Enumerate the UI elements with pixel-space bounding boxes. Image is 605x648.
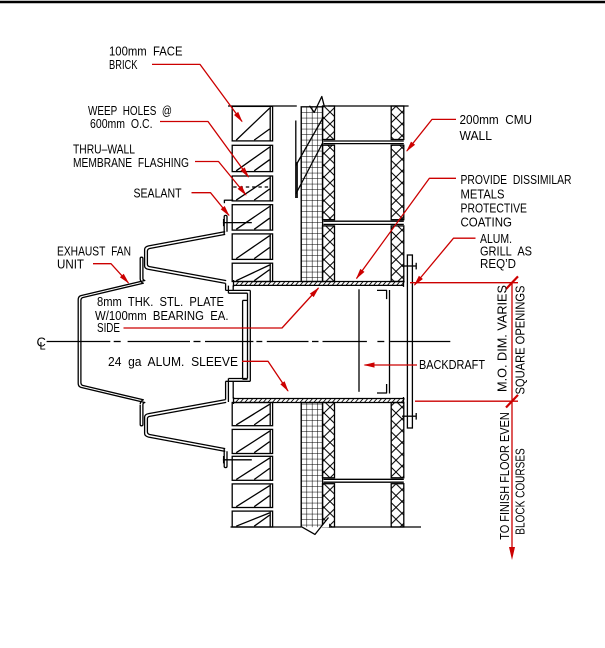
leader membrane flashing xyxy=(195,162,247,196)
damper corner bracket top xyxy=(377,290,387,299)
leader exhaust fan unit xyxy=(93,264,129,284)
svg-text:WALL: WALL xyxy=(460,129,493,143)
fastener top xyxy=(223,219,252,226)
thru-wall flashing riser and ties xyxy=(296,119,323,199)
svg-text:L: L xyxy=(40,341,46,353)
fastener bottom xyxy=(223,456,252,463)
leader sealant xyxy=(192,193,230,217)
svg-text:REQ’D: REQ’D xyxy=(480,257,516,271)
svg-text:BLOCK COURSES: BLOCK COURSES xyxy=(513,448,527,535)
svg-text:SEALANT: SEALANT xyxy=(134,187,182,201)
svg-text:SQUARE OPENINGS: SQUARE OPENINGS xyxy=(513,286,527,395)
backdraft damper blade xyxy=(358,289,360,392)
svg-text:SIDE: SIDE xyxy=(97,321,120,335)
leader weep holes xyxy=(160,122,249,178)
svg-text:M.O. DIM. VARIES: M.O. DIM. VARIES xyxy=(496,285,510,392)
svg-text:BACKDRAFT: BACKDRAFT xyxy=(419,358,485,372)
svg-text:EXHAUST FAN: EXHAUST FAN xyxy=(57,245,131,259)
leader 8mm steel plate xyxy=(124,287,320,328)
wall bottom edge line xyxy=(231,526,422,528)
centerline xyxy=(47,341,451,343)
svg-text:24 ga ALUM. SLEEVE: 24 ga ALUM. SLEEVE xyxy=(108,355,238,369)
grout column lower (grid hatch) xyxy=(301,403,322,528)
face brick column upper (100mm face brick, hatched) xyxy=(232,106,272,281)
svg-text:MEMBRANE FLASHING: MEMBRANE FLASHING xyxy=(73,156,189,170)
leader backdraft xyxy=(364,362,418,367)
svg-text:METALS: METALS xyxy=(461,187,505,201)
leader 24ga sleeve xyxy=(242,361,289,392)
cmu bed joint 2 xyxy=(324,221,404,224)
svg-text:PROVIDE DISSIMILAR: PROVIDE DISSIMILAR xyxy=(461,173,572,187)
svg-text:COATING: COATING xyxy=(461,215,513,229)
centerline symbol xyxy=(37,335,46,353)
alum grille plate with bolts xyxy=(402,255,416,428)
svg-text:200mm CMU: 200mm CMU xyxy=(460,113,533,127)
border top edge xyxy=(0,1,605,4)
cmu left face shell X-hatch xyxy=(323,106,335,527)
face brick column lower (100mm face brick, hatched) xyxy=(232,403,272,528)
opening left jamb xyxy=(232,285,234,398)
break symbol bottom xyxy=(302,517,329,536)
svg-text:100mm FACE: 100mm FACE xyxy=(109,45,183,59)
wall top edge line xyxy=(228,105,409,107)
svg-text:PROTECTIVE: PROTECTIVE xyxy=(461,201,528,215)
thru-wall membrane flashing dashed line xyxy=(233,186,270,188)
leader dissimilar metals xyxy=(356,178,456,279)
exhaust fan unit body xyxy=(78,215,250,467)
cmu bed joint 3 (lower) xyxy=(324,479,404,482)
svg-text:UNIT: UNIT xyxy=(57,258,84,272)
steel plate bottom (8mm bearing plate, hatched) xyxy=(234,397,405,404)
vertical dimension text xyxy=(496,285,528,540)
leader 100mm face brick xyxy=(152,64,243,122)
leader alum grill xyxy=(414,238,476,286)
break symbol top xyxy=(310,97,325,113)
dimension lines right xyxy=(410,276,518,560)
backdraft damper frame right xyxy=(389,290,391,394)
cmu right face shell X-hatch xyxy=(391,106,404,527)
damper corner bracket bottom xyxy=(377,384,387,393)
cmu bed joint 1 xyxy=(324,141,404,144)
leader 200mm cmu wall xyxy=(406,119,456,151)
svg-text:8mm THK. STL. PLATE: 8mm THK. STL. PLATE xyxy=(97,295,224,309)
steel plate top (8mm bearing plate, hatched) xyxy=(234,280,405,287)
svg-text:THRU–WALL: THRU–WALL xyxy=(73,143,135,157)
svg-text:BRICK: BRICK xyxy=(109,58,138,72)
svg-text:600mm O.C.: 600mm O.C. xyxy=(90,117,153,131)
grout column upper (grid hatch) xyxy=(301,107,322,282)
flashing stub at joint xyxy=(224,200,233,203)
svg-text:WEEP HOLES @: WEEP HOLES @ xyxy=(88,104,172,118)
svg-text:TO FINISH FLOOR EVEN: TO FINISH FLOOR EVEN xyxy=(498,412,512,540)
